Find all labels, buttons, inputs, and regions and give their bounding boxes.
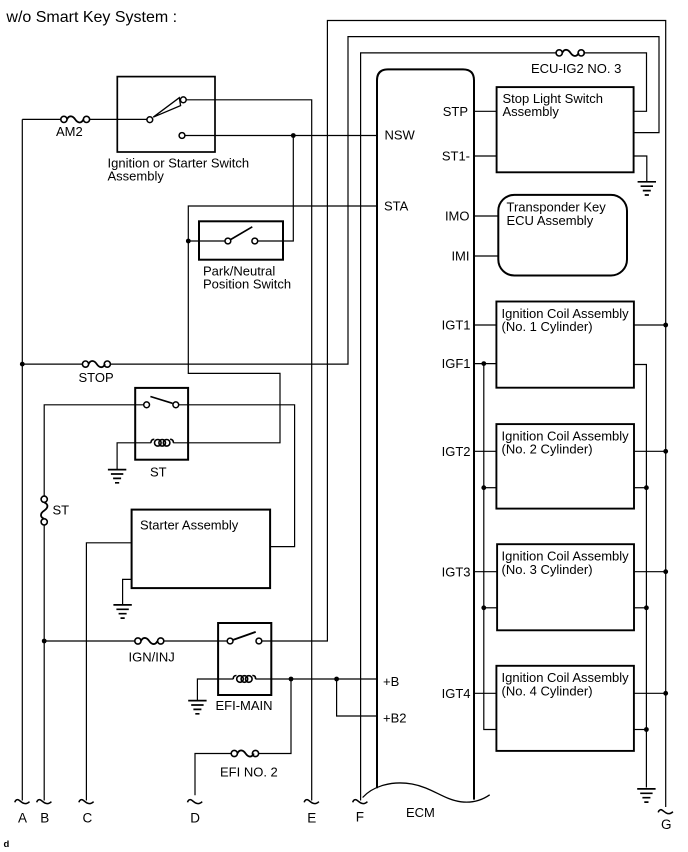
park/neutral left contact [225, 238, 231, 244]
ignition or starter switch assembly box [108, 77, 250, 184]
wire F and ECU-IG2 fuse run [361, 53, 647, 801]
wire ST1- [474, 155, 497, 157]
svg-text:ECU Assembly: ECU Assembly [507, 213, 594, 228]
wire ST relay switch feed [44, 405, 144, 801]
node IGF bus coil3 junction [481, 605, 486, 610]
connector F [353, 800, 368, 804]
svg-text:IGT1: IGT1 [442, 317, 471, 332]
node STOP junction on wire A [20, 362, 25, 367]
svg-text:G: G [661, 817, 672, 832]
svg-text:d: d [4, 839, 10, 850]
connector C [79, 800, 94, 804]
node ground bus coil2 junction [644, 485, 649, 490]
connector B [37, 800, 52, 804]
node G coil3 junction [663, 569, 668, 574]
wire STA to ST relay coil [188, 206, 377, 443]
ignition coil assembly no.3 box [497, 544, 634, 630]
wire IGT2 [474, 450, 496, 452]
node IGF1 junction [481, 361, 486, 366]
svg-text:NSW: NSW [385, 128, 416, 143]
wire coil2 +B pin [634, 450, 666, 452]
svg-text:w/o Smart Key System :: w/o Smart Key System : [5, 9, 177, 26]
svg-text:+B: +B [383, 674, 399, 689]
wire +B [218, 678, 377, 680]
wire IMO [474, 215, 498, 217]
relay EFI-MAIN switch right contact [256, 638, 262, 644]
svg-text:STOP: STOP [79, 370, 114, 385]
starter assembly box [132, 510, 271, 588]
svg-text:(No. 2 Cylinder): (No. 2 Cylinder) [502, 442, 593, 457]
svg-text:IGN/INJ: IGN/INJ [129, 649, 175, 664]
wire IGN/INJ feed [44, 640, 227, 642]
wire coil2 ground pin [634, 487, 646, 489]
wire E (ignition IG2 to E connector) [186, 100, 312, 801]
connector A [15, 800, 30, 804]
wire park/neutral left pin [188, 240, 225, 242]
wire coil1 +B pin [634, 324, 666, 326]
wire NSW [185, 135, 377, 137]
svg-text:(No. 3 Cylinder): (No. 3 Cylinder) [502, 562, 593, 577]
fuse ST [41, 496, 69, 525]
svg-text:EFI NO. 2: EFI NO. 2 [220, 765, 278, 780]
relay EFI-MAIN box [216, 623, 273, 713]
wire IGT3 [474, 571, 497, 573]
wire EFI NO.2 run to D [195, 679, 291, 795]
wire park/neutral riser [258, 136, 294, 242]
wire C (starter to C connector) [86, 543, 131, 801]
node +B2 junction [334, 677, 339, 682]
node G coil1 junction [663, 323, 668, 328]
svg-text:F: F [356, 809, 364, 824]
wire ST relay coil line [117, 443, 188, 469]
svg-text:Assembly: Assembly [108, 169, 165, 184]
svg-text:+B2: +B2 [383, 711, 407, 726]
relay ST blade [150, 397, 172, 404]
svg-text:IMI: IMI [451, 248, 469, 263]
svg-text:(No. 1 Cylinder): (No. 1 Cylinder) [502, 319, 593, 334]
connector D [188, 800, 203, 804]
fuse STOP [79, 361, 114, 385]
ground ignition coils [637, 789, 655, 802]
ignition switch NSW contact [179, 133, 185, 139]
wire starter ground stem [123, 579, 132, 604]
svg-text:Position Switch: Position Switch [203, 276, 291, 291]
node NSW junction [291, 133, 296, 138]
ignition switch pivot contact [147, 117, 153, 123]
park/neutral position switch box [199, 221, 291, 291]
wire IGT1 [474, 324, 496, 326]
wire IGF coil2 pin [484, 487, 497, 489]
ECM bottom wave [363, 783, 490, 802]
wire STOP run to stop light switch [22, 37, 659, 365]
wire STP [474, 110, 497, 112]
relay ST coil [151, 439, 173, 446]
ECM body [377, 69, 474, 799]
wire coil3 ground pin [634, 607, 646, 609]
svg-text:IMO: IMO [445, 209, 470, 224]
node ground bus coil4 junction [644, 727, 649, 732]
transponder key ECU assembly box [498, 195, 627, 276]
svg-text:E: E [307, 810, 316, 825]
park/neutral right contact [252, 238, 258, 244]
fuse ECU-IG2 NO. 3 [531, 50, 621, 76]
connector E [304, 800, 319, 804]
wire IGT4 [474, 692, 496, 694]
ignition coil assembly no.4 box [496, 666, 634, 751]
ground stop light switch [638, 182, 656, 195]
ground starter [113, 605, 131, 618]
connector G [658, 810, 673, 814]
relay EFI-MAIN coil [233, 676, 255, 683]
park/neutral blade [231, 227, 253, 240]
relay EFI-MAIN blade [233, 632, 256, 640]
svg-text:Assembly: Assembly [503, 104, 560, 119]
svg-text:AM2: AM2 [56, 124, 83, 139]
ground ST relay [108, 470, 126, 483]
svg-text:Starter Assembly: Starter Assembly [140, 517, 239, 532]
ignition switch IG2 contact [180, 97, 186, 103]
node IGN/INJ junction on wire B [42, 639, 47, 644]
node EFI NO.2 junction [289, 677, 294, 682]
node IGF bus coil2 junction [481, 485, 486, 490]
fuse EFI NO. 2 [220, 750, 278, 779]
svg-text:ST1-: ST1- [442, 149, 470, 164]
wire outer loop: EFI-MAIN switch out, top rail, wire G [262, 21, 666, 808]
svg-text:IGF1: IGF1 [442, 356, 471, 371]
svg-text:C: C [83, 810, 93, 825]
fuse AM2 [56, 116, 90, 139]
svg-text:IGT2: IGT2 [442, 444, 471, 459]
relay EFI-MAIN switch left contact [227, 638, 233, 644]
ignition coil assembly no.2 box [496, 424, 634, 509]
svg-text:STA: STA [384, 199, 409, 214]
ignition switch blade [153, 98, 180, 118]
svg-text:A: A [18, 810, 27, 825]
wire +B2 [337, 679, 377, 716]
wire IMI [474, 255, 498, 257]
wire ST relay switch to starter [179, 405, 295, 547]
svg-text:ST: ST [150, 464, 167, 479]
node park/neutral left junction [186, 239, 191, 244]
svg-text:STP: STP [443, 104, 468, 119]
wire A vertical [21, 119, 23, 800]
wire AM2 feed [22, 118, 147, 120]
svg-text:ECU-IG2 NO. 3: ECU-IG2 NO. 3 [531, 61, 621, 76]
svg-text:D: D [190, 810, 200, 825]
node G coil4 junction [663, 691, 668, 696]
wire coil4 +B pin [634, 692, 666, 694]
wire IGF1 [474, 363, 496, 365]
svg-text:ST: ST [53, 502, 70, 517]
relay ST switch right contact [173, 402, 179, 408]
wire coil4 ground pin [634, 729, 646, 731]
wire EFI-MAIN coil ground stem [197, 679, 218, 700]
wire coil ground bus [634, 365, 647, 788]
stop light switch assembly box [497, 87, 634, 172]
svg-text:IGT4: IGT4 [442, 686, 471, 701]
relay ST switch left contact [144, 402, 150, 408]
svg-text:(No. 4 Cylinder): (No. 4 Cylinder) [502, 683, 593, 698]
ignition coil assembly no.1 box [496, 302, 634, 388]
wire coil3 +B pin [634, 571, 666, 573]
svg-text:ECM: ECM [406, 805, 435, 820]
relay ST box [135, 388, 188, 480]
fuse IGN/INJ [129, 638, 175, 665]
ground EFI-MAIN [188, 701, 206, 714]
wire stop light ground stem [634, 156, 647, 181]
svg-text:B: B [40, 810, 49, 825]
wire IGF bus [484, 364, 497, 730]
node ground bus coil3 junction [644, 605, 649, 610]
wire IGF coil3 pin [484, 607, 497, 609]
svg-text:IGT3: IGT3 [442, 564, 471, 579]
node G coil2 junction [663, 449, 668, 454]
svg-text:EFI-MAIN: EFI-MAIN [216, 698, 273, 713]
